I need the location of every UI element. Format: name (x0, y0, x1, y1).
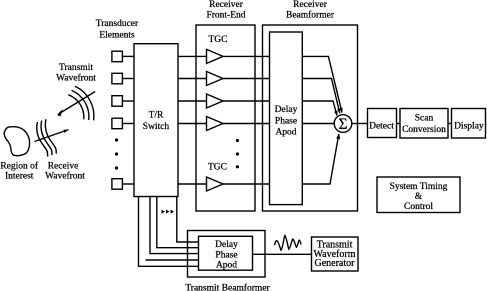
svg-text:Interest: Interest (5, 172, 34, 182)
svg-text:Detect: Detect (369, 122, 394, 132)
svg-text:Wavefront: Wavefront (56, 73, 96, 84)
svg-text:Wavefront: Wavefront (45, 171, 85, 182)
svg-text:Transmit: Transmit (59, 63, 93, 73)
svg-text:Delay: Delay (215, 240, 238, 250)
svg-text:System Timing: System Timing (390, 182, 448, 192)
svg-text:Conversion: Conversion (402, 125, 446, 135)
svg-text:Generator: Generator (315, 258, 356, 269)
svg-text:Region of: Region of (0, 161, 39, 172)
svg-text:TGC: TGC (209, 35, 228, 45)
svg-text:Apod: Apod (216, 261, 237, 271)
svg-text:TGC: TGC (208, 163, 227, 173)
svg-text:Phase: Phase (275, 117, 297, 127)
svg-text:Beamformer: Beamformer (286, 10, 335, 21)
svg-text:Receive: Receive (48, 162, 79, 172)
svg-text:&: & (415, 192, 423, 202)
svg-text:T/R: T/R (149, 111, 164, 121)
svg-text:Switch: Switch (143, 122, 170, 132)
svg-text:Apod: Apod (275, 128, 296, 138)
svg-text:Display: Display (454, 122, 484, 132)
svg-text:Σ: Σ (338, 116, 347, 133)
svg-text:Receiver: Receiver (209, 0, 244, 10)
svg-text:Delay: Delay (275, 105, 298, 115)
svg-text:Transducer: Transducer (96, 19, 139, 29)
svg-text:Elements: Elements (99, 31, 135, 41)
svg-text:Front-End: Front-End (206, 11, 245, 21)
svg-text:Receiver: Receiver (293, 0, 328, 10)
svg-text:Control: Control (404, 202, 433, 212)
svg-text:Phase: Phase (215, 251, 237, 261)
svg-text:Transmit Beamformer: Transmit Beamformer (185, 283, 270, 291)
svg-text:Scan: Scan (415, 114, 434, 124)
